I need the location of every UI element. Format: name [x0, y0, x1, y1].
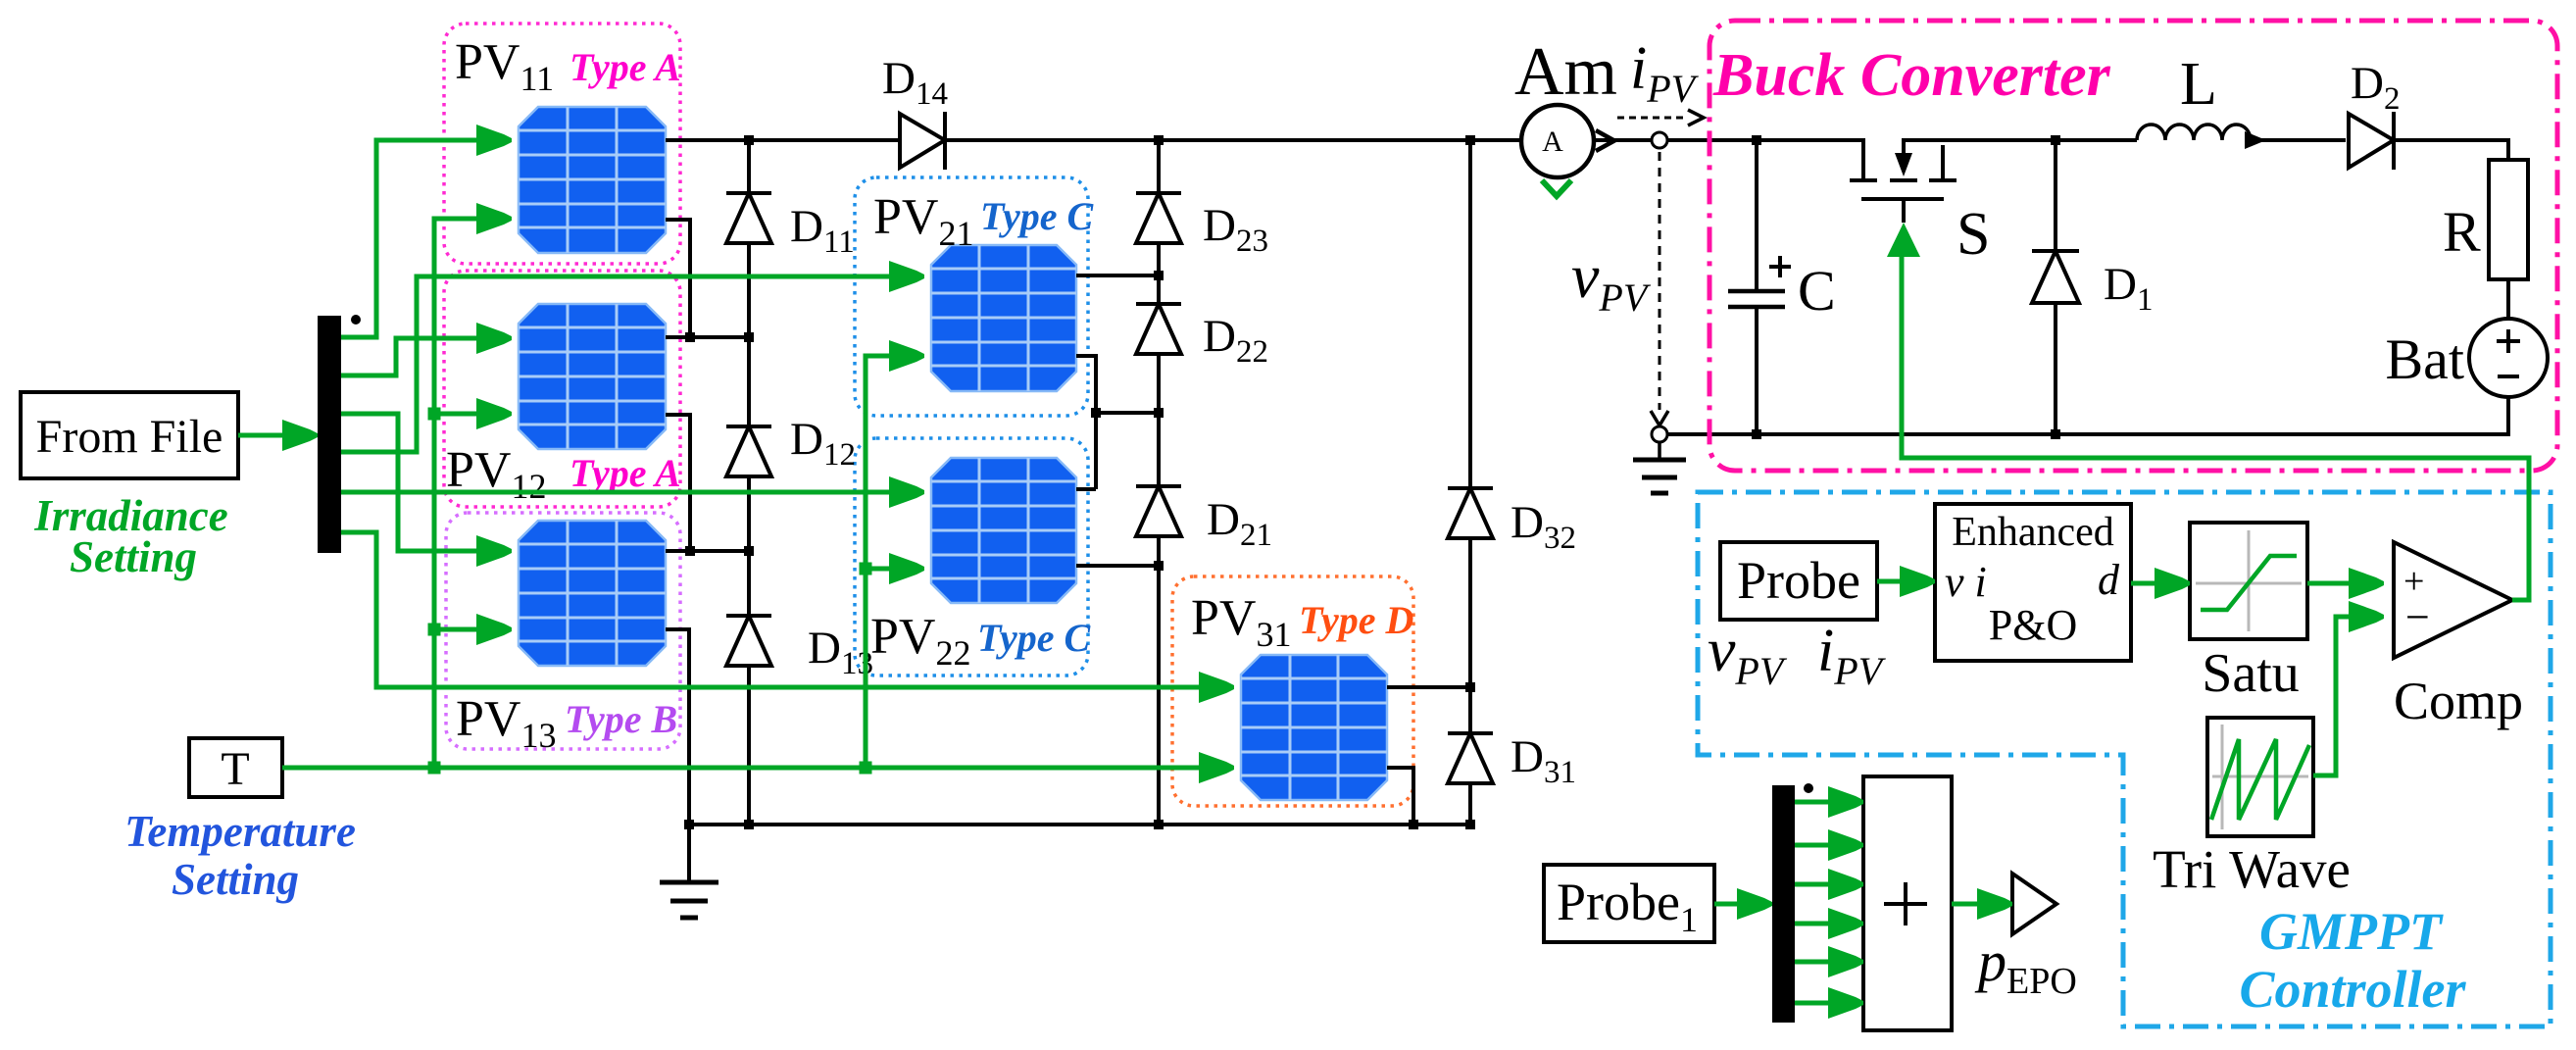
junction node (1500,701)	[1465, 682, 1475, 692]
svg-text:A: A	[1542, 125, 1563, 158]
svg-text:Am: Am	[1514, 34, 1617, 110]
inductor L	[2137, 125, 2251, 140]
svg-text:From File: From File	[36, 411, 223, 463]
junction node (1182,281)	[1154, 271, 1164, 280]
wire PV31 out1 to diode column	[1387, 685, 1470, 689]
wire demux out4 to PV21 in1	[341, 276, 922, 452]
wire PV13 out1 to diode column	[666, 549, 749, 553]
svg-text:v i: v i	[1945, 558, 1987, 606]
diode D12	[726, 426, 771, 476]
wire demux out6 to PV31 in1	[341, 532, 1232, 687]
svg-text:Enhanced: Enhanced	[1952, 510, 2114, 555]
wire inductor to D2	[2251, 138, 2346, 142]
junction dot temperature rail riser2	[860, 762, 872, 775]
wire battery to bottom rail of converter	[1666, 397, 2508, 434]
wire temperature branch to PV13 in2	[434, 627, 510, 632]
wire input port to MOSFET drain	[1666, 138, 1863, 142]
svg-text:GMPPT: GMPPT	[2259, 902, 2444, 961]
From File source block	[21, 392, 238, 478]
wire array ground stub	[687, 825, 691, 880]
wire MOSFET source to inductor	[1904, 138, 2137, 142]
GMPPT Controller boundary box	[1698, 492, 2551, 1026]
junction dot temperature rail riser1	[428, 762, 441, 775]
junction node (764,143)	[744, 135, 754, 145]
svg-text:L: L	[2180, 51, 2217, 118]
diode D14 (series, horizontal)	[900, 112, 945, 170]
Buck Converter boundary box	[1709, 21, 2557, 471]
ammeter output arrow	[1596, 130, 1614, 151]
Tri Wave block	[2207, 718, 2313, 836]
svg-text:C: C	[1798, 259, 1836, 323]
PV module PV11	[519, 107, 666, 253]
PV type A box around PV12	[444, 271, 680, 507]
wire string3 diode column	[1468, 140, 1472, 825]
svg-text:Comp: Comp	[2394, 672, 2523, 730]
wire PV22 out2 to diode column	[1076, 564, 1159, 568]
diode D11	[726, 193, 771, 243]
PV type C box around PV21	[855, 177, 1088, 416]
junction node (764,841)	[744, 820, 754, 829]
wire temperature branch to PV12 in2	[434, 412, 510, 417]
dot above demux	[351, 315, 361, 325]
wire R bottom to battery	[2506, 279, 2510, 319]
wire Satu to Comp plus input	[2307, 581, 2382, 586]
wire PV12 out1 to diode column	[666, 335, 749, 339]
junction node (1500,841)	[1465, 820, 1475, 829]
wire demux out5 to PV22 in1	[341, 490, 922, 495]
svg-text:Probe: Probe	[1737, 551, 1860, 610]
resistor R	[2489, 160, 2528, 279]
junction node (1792,143)	[1752, 135, 1761, 145]
diode D1 (freewheeling)	[2032, 251, 2079, 303]
junction node (1182,143)	[1154, 135, 1164, 145]
wire d output to Satu	[2131, 581, 2188, 586]
input port circle (vPV +)	[1652, 132, 1667, 148]
junction node (1500,143)	[1465, 135, 1475, 145]
wire string2 diode column	[1157, 140, 1161, 825]
junction dot temperature/PV22	[860, 563, 872, 575]
svg-text:Buck Converter: Buck Converter	[1712, 42, 2111, 109]
PV module PV12	[519, 304, 666, 449]
junction node (1182,577)	[1154, 561, 1164, 571]
dot above mux	[1804, 783, 1813, 793]
wire temperature riser 2	[866, 356, 922, 768]
svg-text:Type C: Type C	[977, 616, 1091, 660]
wire series node to diode column (string2 mid)	[1096, 411, 1159, 415]
wire ammeter to input port circle	[1592, 138, 1653, 142]
PV module PV21	[931, 245, 1076, 391]
svg-text:Type A: Type A	[570, 45, 681, 89]
svg-text:T: T	[221, 743, 249, 795]
wire PV12 out2 down to series node	[666, 415, 690, 551]
Enhanced P&O block	[1935, 504, 2131, 661]
junction dot temperature/PV12	[428, 408, 441, 421]
junction node (2097,443)	[2051, 429, 2060, 439]
svg-text:d: d	[2098, 556, 2120, 604]
wire demux out2 to PV12 in1	[341, 338, 510, 375]
PV type C box around PV22	[855, 438, 1088, 675]
junction node (1442,841)	[1409, 820, 1418, 829]
wire sum to gain triangle	[1952, 902, 2010, 907]
wire capacitor branch	[1755, 140, 1759, 290]
svg-text:P&O: P&O	[1989, 601, 2077, 649]
wire demux out3 to PV13 in1	[341, 414, 510, 551]
wire mux out1 to sum	[1795, 800, 1861, 805]
wire mux out2 to sum	[1795, 843, 1861, 848]
PV type D box around PV31	[1172, 576, 1413, 806]
svg-text:Type B: Type B	[565, 697, 677, 741]
wire mux out6 to sum	[1795, 1001, 1861, 1006]
junction node (2097,143)	[2051, 135, 2060, 145]
wire PV21 out1 to diode column	[1076, 274, 1159, 277]
ammeter Am	[1521, 105, 1594, 177]
svg-text:Controller: Controller	[2239, 960, 2466, 1019]
junction node (1792,443)	[1752, 429, 1761, 439]
MOSFET S	[1850, 138, 1957, 223]
ground symbol (converter input)	[1633, 441, 1686, 493]
junction node (1182,421)	[1154, 408, 1164, 418]
wire demux out1 to PV11 in1	[341, 140, 510, 337]
svg-text:Satu: Satu	[2202, 643, 2300, 704]
svg-text:Type A: Type A	[570, 451, 681, 495]
junction node (764,562)	[744, 546, 754, 556]
wire From File to demux	[238, 433, 316, 438]
PV type B box around PV13	[446, 513, 680, 749]
PV module PV31	[1241, 655, 1387, 800]
dashed arrow iPV	[1617, 117, 1686, 120]
svg-text:−: −	[2405, 593, 2430, 641]
svg-text:Tri Wave: Tri Wave	[2153, 839, 2351, 899]
wire array bottom rail	[689, 823, 1474, 826]
wire PV22 out1 to series node	[1076, 487, 1096, 491]
MOSFET gate arrowhead	[1887, 223, 1920, 257]
diode D2 (horizontal)	[2349, 112, 2394, 170]
wire PV31 out2 down to bottom rail	[1387, 768, 1413, 825]
wire mux out4 to sum	[1795, 922, 1861, 926]
PV module PV22	[931, 458, 1076, 603]
diode D23	[1136, 193, 1181, 243]
wire PV21 out2 down to series node	[1076, 356, 1096, 489]
wire Probe to Enhanced P&O	[1877, 579, 1933, 584]
wire PV13 out2 down to array ground rail	[666, 629, 689, 825]
PV type A box around PV11	[444, 24, 680, 264]
wire Tri Wave to Comp minus input	[2313, 617, 2382, 775]
wire Comp output to MOSFET gate	[1902, 257, 2529, 600]
capacitor plus sign	[1769, 256, 1791, 277]
wire Probe1 to mux	[1714, 902, 1770, 907]
temperature block T	[189, 738, 282, 797]
svg-text:Probe1: Probe1	[1557, 873, 1698, 939]
wire D1 branch	[2054, 140, 2057, 434]
diode D21	[1136, 486, 1181, 536]
sum block	[1863, 776, 1952, 1030]
junction dot temperature/PV13	[428, 624, 441, 636]
green chevron under ammeter	[1542, 180, 1571, 196]
wire top rail from PV11 out1 to ammeter	[666, 138, 1521, 142]
junction node (1118,421)	[1091, 408, 1101, 418]
svg-text:R: R	[2443, 200, 2481, 264]
Probe1 block	[1544, 865, 1714, 942]
wire T to PV31 in2 (temperature rail)	[282, 766, 1232, 771]
PV module PV13	[519, 521, 666, 666]
svg-text:Setting: Setting	[172, 855, 299, 904]
wire temperature branch to PV22 in2	[866, 567, 922, 572]
svg-text:Type C: Type C	[980, 194, 1094, 238]
Satu block	[2190, 523, 2307, 639]
wire temperature riser 1	[434, 219, 510, 768]
junction node (1182,841)	[1154, 820, 1164, 829]
diode D32	[1448, 488, 1493, 538]
wire mux out5 to sum	[1795, 960, 1861, 965]
wire port to capacitor bottom	[1667, 432, 1757, 436]
junction node (764,344)	[744, 332, 754, 342]
dashed line vPV	[1659, 152, 1661, 410]
diode D13	[726, 616, 771, 666]
ground symbol (PV array)	[660, 882, 718, 918]
junction node (704,344)	[685, 332, 695, 342]
svg-text:Setting: Setting	[70, 532, 197, 581]
junction node (703,841)	[684, 820, 694, 829]
diode D22	[1136, 304, 1181, 354]
svg-text:Bat: Bat	[2385, 327, 2464, 391]
wire PV11 out2 down to series node	[666, 220, 690, 337]
comparator Comp	[2394, 542, 2512, 658]
svg-text:Temperature: Temperature	[124, 807, 356, 856]
mux bar (sum inputs)	[1772, 785, 1795, 1023]
gain triangle (pEPO)	[2012, 874, 2056, 934]
input port circle (vPV -)	[1652, 426, 1667, 442]
wire mux out3 to sum	[1795, 882, 1861, 887]
Probe block	[1720, 542, 1877, 620]
junction node (704,562)	[685, 546, 695, 556]
capacitor C	[1728, 291, 1785, 307]
svg-text:Type D: Type D	[1299, 598, 1413, 642]
wire string1 diode column	[747, 140, 751, 825]
battery Bat	[2469, 319, 2548, 397]
wire D2 to R top corner	[2396, 140, 2508, 160]
diode D31	[1448, 733, 1493, 783]
svg-text:S: S	[1957, 201, 1990, 268]
demux bar (irradiance)	[318, 316, 341, 553]
